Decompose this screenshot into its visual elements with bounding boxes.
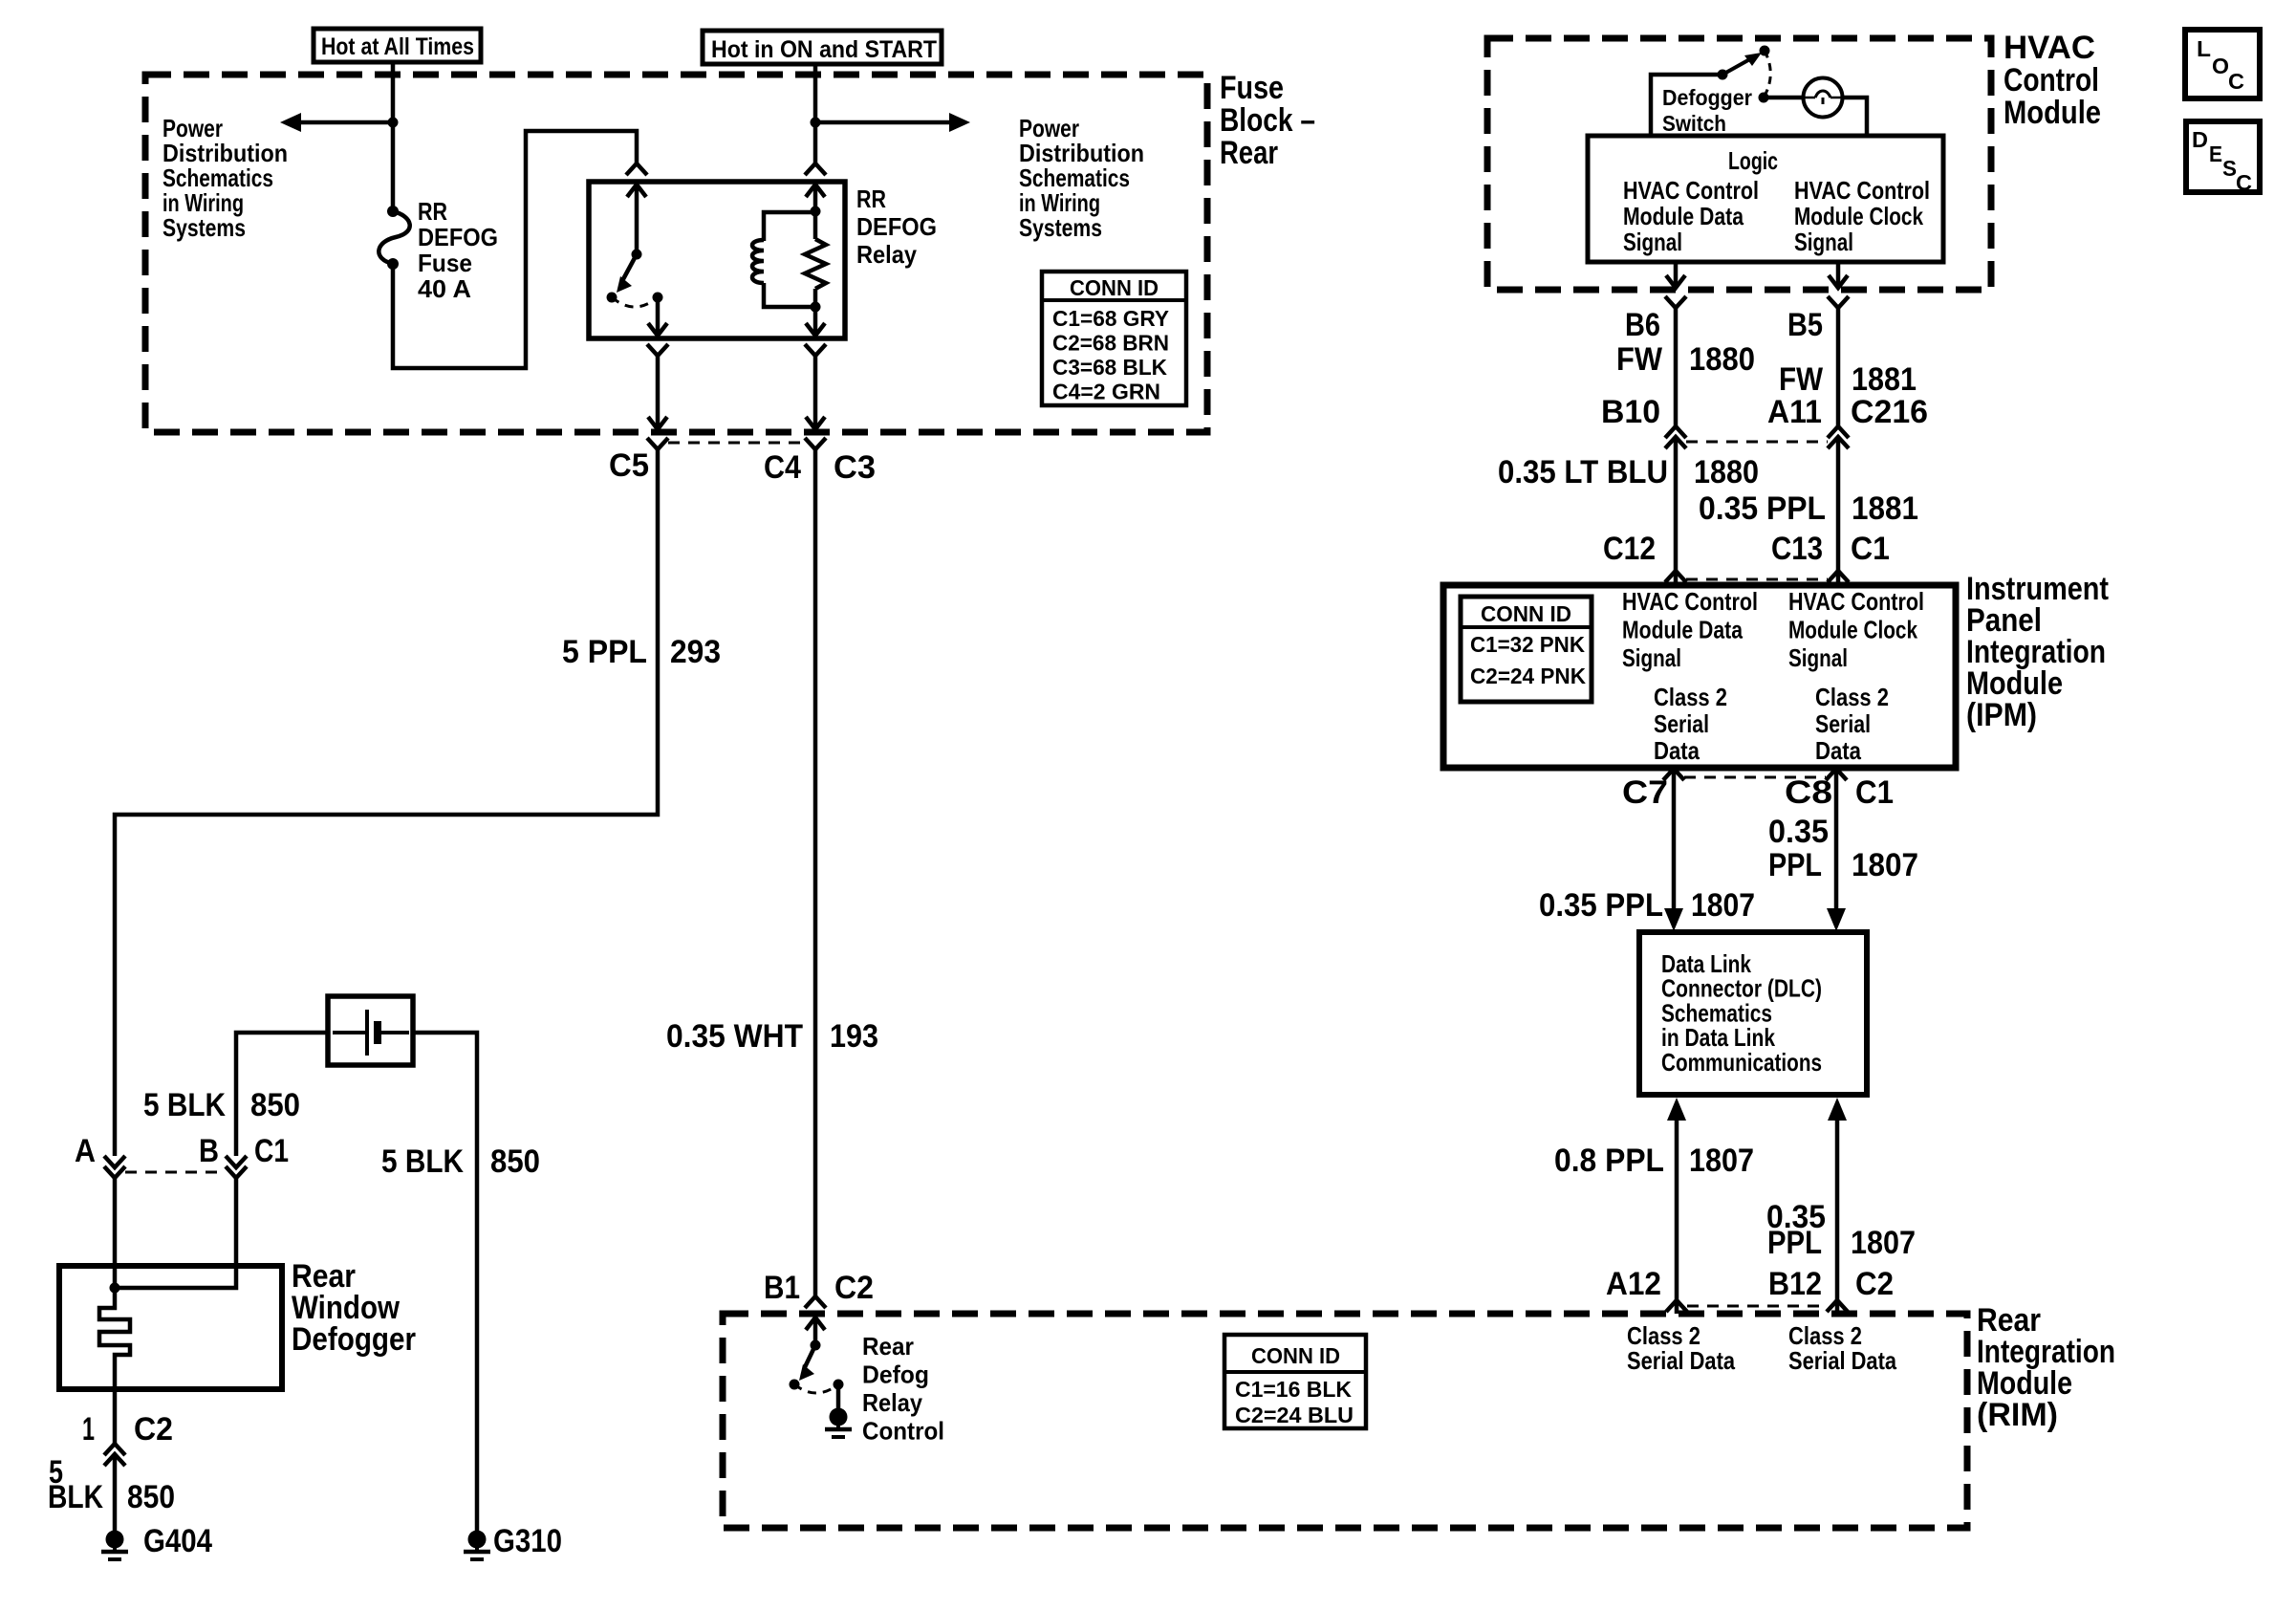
- svg-text:RR: RR: [418, 197, 447, 226]
- svg-text:C4: C4: [764, 449, 801, 486]
- module box: HVAC Control Module (dashed): [1487, 38, 1991, 290]
- wire: relay coil branch upper: [813, 185, 818, 239]
- svg-text:C2: C2: [1855, 1266, 1894, 1302]
- module box: Instrument Panel Integration Module: [1443, 585, 1956, 768]
- wire: HVAC data signal out (B6): [1674, 262, 1679, 288]
- wire: B wire into defogger box to junction: [115, 1178, 236, 1288]
- svg-text:HVAC Control: HVAC Control: [1788, 587, 1924, 616]
- wire: C8 to DLC: [1834, 769, 1839, 910]
- svg-text:C2=24 PNK: C2=24 PNK: [1470, 664, 1586, 688]
- svg-text:Rear: Rear: [1220, 135, 1278, 171]
- svg-text:HVAC Control: HVAC Control: [1623, 176, 1759, 205]
- dashed link: RIM switch arc: [794, 1384, 838, 1393]
- svg-text:A11: A11: [1767, 394, 1822, 430]
- wire: down to relay coil terminal: [813, 122, 818, 163]
- svg-text:1807: 1807: [1852, 847, 1918, 883]
- relay pin arrow: switch output leaving relay: [648, 323, 667, 336]
- svg-text:(IPM): (IPM): [1966, 697, 2037, 733]
- dashed link: A-B connector line: [125, 1171, 226, 1174]
- wire: lamp to logic box: [1843, 98, 1867, 136]
- svg-text:Rear: Rear: [862, 1332, 914, 1361]
- svg-text:A: A: [75, 1133, 96, 1169]
- relay K1: RR DEFOG Relay box: [589, 182, 845, 338]
- svg-text:Module Data: Module Data: [1623, 202, 1744, 230]
- node: RIM switch right contact: [834, 1380, 844, 1390]
- wire: relay output (coil side) down: [813, 307, 818, 336]
- svg-text:40 A: 40 A: [418, 274, 471, 303]
- svg-text:C2: C2: [134, 1411, 173, 1448]
- connector chevron: B6 below HVAC box: [1665, 296, 1686, 308]
- svg-text:1880: 1880: [1694, 454, 1759, 490]
- RIM relay control switch arm: [805, 1345, 815, 1367]
- wire: branch to Power Distribution (left): [299, 120, 393, 125]
- legend box: LOC: [2185, 30, 2260, 98]
- arrow: A12 into DLC: [1667, 1098, 1686, 1121]
- defogger switch arm: [1722, 56, 1755, 75]
- svg-text:C1=68 GRY: C1=68 GRY: [1052, 306, 1169, 331]
- svg-text:C1: C1: [1855, 774, 1894, 811]
- svg-text:C1=32 PNK: C1=32 PNK: [1470, 632, 1585, 657]
- node: defogger switch upper contact: [1760, 46, 1770, 56]
- node: coil bottom junction: [811, 302, 821, 313]
- wire: A11 to IPM C13: [1836, 437, 1841, 585]
- svg-text:A12: A12: [1606, 1266, 1661, 1302]
- svg-text:C: C: [2228, 69, 2244, 94]
- connector chevron: C5 below fuse block: [647, 438, 668, 449]
- svg-text:C2: C2: [834, 1270, 874, 1306]
- dashed link: C216 connector line: [1686, 441, 1828, 444]
- svg-text:Class 2: Class 2: [1654, 683, 1727, 711]
- svg-text:E: E: [2209, 142, 2222, 166]
- arrow: B12 into DLC: [1828, 1098, 1847, 1121]
- svg-text:RR: RR: [856, 185, 886, 213]
- connector chevron: below relay (coil side): [805, 344, 826, 356]
- wire: relay switch common: [635, 185, 639, 254]
- ground G404: [106, 1531, 124, 1549]
- wire: defogger switch feed: [1651, 75, 1722, 136]
- svg-text:C5: C5: [609, 447, 649, 484]
- connector chevron: C7 below IPM: [1663, 769, 1684, 780]
- svg-text:Module: Module: [2004, 95, 2101, 131]
- svg-text:0.35 WHT: 0.35 WHT: [666, 1018, 803, 1055]
- connector chevron: B1 above RIM: [805, 1296, 826, 1308]
- svg-text:0.8 PPL: 0.8 PPL: [1554, 1143, 1664, 1179]
- svg-text:Serial: Serial: [1815, 709, 1871, 738]
- svg-text:PPL: PPL: [1768, 847, 1822, 883]
- connector chevron: below relay (switch output): [647, 344, 668, 356]
- wire: B6 to inline connector B10: [1674, 308, 1679, 426]
- svg-text:CONN ID: CONN ID: [1481, 601, 1571, 626]
- svg-text:CONN ID: CONN ID: [1070, 275, 1159, 300]
- connector chevron: C12 above IPM: [1665, 571, 1686, 582]
- svg-text:Data: Data: [1654, 736, 1700, 765]
- module box: Rear Integration Module (dashed): [723, 1314, 1967, 1528]
- svg-text:C7: C7: [1622, 774, 1668, 811]
- dashed link: A12-B12 connector line: [1687, 1305, 1827, 1308]
- svg-text:Signal: Signal: [1788, 643, 1848, 672]
- svg-text:C: C: [2236, 170, 2252, 195]
- node: defogger switch pivot: [1718, 70, 1728, 80]
- wire: relay output to fuse block edge C5: [656, 356, 661, 429]
- connector chevron: A12 above RIM: [1666, 1300, 1687, 1312]
- svg-text:HVAC Control: HVAC Control: [1622, 587, 1758, 616]
- svg-text:Hot in ON and START: Hot in ON and START: [711, 36, 937, 63]
- svg-text:G310: G310: [493, 1523, 562, 1559]
- inductor: relay coil: [752, 240, 764, 283]
- connector chevron: relay coil input above relay box: [805, 163, 826, 175]
- node: junction at RR DEFOG fuse feed: [388, 118, 399, 128]
- svg-text:850: 850: [490, 1143, 540, 1180]
- svg-text:1807: 1807: [1691, 887, 1755, 924]
- svg-text:CONN ID: CONN ID: [1251, 1343, 1340, 1368]
- svg-text:D: D: [2192, 127, 2208, 152]
- wire: B5 to inline connector A11: [1836, 308, 1841, 426]
- wire: to G404: [113, 1454, 118, 1531]
- wire: RIM switch to internal ground: [836, 1384, 841, 1408]
- wire: HVAC clock signal out (B5): [1836, 262, 1841, 288]
- pin arrow: B5 at HVAC edge: [1829, 275, 1848, 288]
- svg-text:C4=2 GRN: C4=2 GRN: [1052, 380, 1160, 404]
- wire: battery to B wire: [236, 1033, 328, 1156]
- svg-text:C3=68 BLK: C3=68 BLK: [1052, 355, 1167, 380]
- fuse F1: RR DEFOG Fuse 40 A symbol: [387, 206, 399, 217]
- wire: battery to G310: [413, 1033, 477, 1531]
- svg-text:DEFOG: DEFOG: [856, 212, 937, 241]
- connector chevron: C13 above IPM: [1828, 571, 1849, 582]
- svg-text:C2=24 BLU: C2=24 BLU: [1235, 1403, 1354, 1427]
- svg-text:C216: C216: [1851, 394, 1928, 430]
- arrow: to Power Distribution Schematics right: [949, 113, 970, 132]
- svg-text:Data: Data: [1815, 736, 1861, 765]
- svg-text:1880: 1880: [1689, 341, 1755, 378]
- svg-text:Switch: Switch: [1662, 111, 1726, 136]
- box: Data Link Connector (DLC) reference: [1639, 932, 1867, 1095]
- svg-text:O: O: [2212, 54, 2229, 78]
- wire: defogger ground lead: [113, 1389, 118, 1444]
- svg-text:B6: B6: [1625, 307, 1660, 343]
- svg-text:(RIM): (RIM): [1977, 1397, 2058, 1433]
- wire: A into defogger box: [113, 1178, 118, 1288]
- resistor: relay coil suppression resistor: [805, 239, 826, 289]
- battery: voltage source box: [328, 996, 413, 1065]
- dashed link: C5-C4 connector line: [668, 442, 805, 445]
- svg-text:5 BLK: 5 BLK: [143, 1087, 226, 1123]
- label box: Hot in ON and START: [703, 31, 942, 64]
- svg-text:0.35 PPL: 0.35 PPL: [1539, 887, 1663, 924]
- svg-text:Class 2: Class 2: [1815, 683, 1889, 711]
- arrow: C7 into DLC: [1664, 908, 1683, 931]
- svg-text:5 BLK: 5 BLK: [381, 1143, 464, 1180]
- svg-text:Defogger: Defogger: [292, 1321, 416, 1358]
- wire: fuse to relay switch input (down, right, up, right): [393, 131, 637, 368]
- wire: relay coil feed from Hot in ON and START: [813, 64, 818, 122]
- indicator lamp: defogger switch: [1804, 78, 1843, 118]
- node: RIM switch left contact: [790, 1380, 800, 1390]
- wire: C7 to DLC: [1672, 769, 1677, 910]
- dashed link: relay switch throw arc: [612, 297, 658, 307]
- wire: relay switch output down: [656, 297, 661, 336]
- svg-text:HVAC: HVAC: [2004, 30, 2095, 66]
- svg-text:Serial Data: Serial Data: [1788, 1346, 1896, 1375]
- svg-text:Module Clock: Module Clock: [1794, 202, 1923, 230]
- svg-text:BLK: BLK: [48, 1479, 103, 1515]
- svg-text:Serial Data: Serial Data: [1627, 1346, 1735, 1375]
- svg-text:5 PPL: 5 PPL: [562, 634, 647, 670]
- svg-text:Control: Control: [2004, 62, 2099, 98]
- svg-text:C1=16 BLK: C1=16 BLK: [1235, 1377, 1352, 1402]
- dashed link: C7-C8 connector line: [1684, 776, 1826, 779]
- svg-text:Block –: Block –: [1220, 102, 1315, 139]
- connector chevron: B12 above RIM: [1827, 1300, 1848, 1312]
- wire: C5 to rear window defogger (down, left, down): [115, 449, 658, 1156]
- inline connector: B10 double chevron: [1665, 426, 1686, 438]
- svg-text:193: 193: [830, 1018, 878, 1055]
- connector chevron: relay switch input above relay box: [626, 163, 647, 175]
- dashed link: defogger switch arc: [1764, 51, 1770, 98]
- svg-text:C2=68 BRN: C2=68 BRN: [1052, 331, 1169, 356]
- svg-text:PPL: PPL: [1767, 1225, 1822, 1261]
- ground: RIM internal: [830, 1408, 848, 1426]
- connector chevron: B5 below HVAC box: [1828, 296, 1849, 308]
- svg-text:B5: B5: [1787, 307, 1823, 343]
- svg-text:C3: C3: [834, 449, 876, 486]
- module box: Fuse Block - Rear (dashed): [145, 75, 1207, 432]
- svg-text:Signal: Signal: [1794, 228, 1853, 256]
- wire: RIM A12 to DLC: [1675, 1121, 1679, 1314]
- svg-text:Fuse: Fuse: [418, 249, 472, 277]
- svg-text:C13: C13: [1771, 531, 1823, 567]
- svg-text:Module Clock: Module Clock: [1788, 616, 1917, 644]
- svg-text:Communications: Communications: [1661, 1048, 1822, 1077]
- svg-text:HVAC Control: HVAC Control: [1794, 176, 1930, 205]
- svg-text:B12: B12: [1768, 1266, 1822, 1302]
- svg-text:FW: FW: [1779, 361, 1824, 398]
- node: junction to Power Distribution (right): [811, 118, 821, 128]
- svg-text:1881: 1881: [1852, 490, 1918, 527]
- svg-text:B10: B10: [1601, 394, 1660, 430]
- inline connector: defogger ground double chevron: [104, 1444, 125, 1455]
- wire: Hot at All Times feed down to junction: [391, 62, 396, 122]
- svg-text:C1: C1: [254, 1133, 289, 1169]
- svg-text:Systems: Systems: [162, 213, 246, 242]
- svg-text:Signal: Signal: [1622, 643, 1681, 672]
- svg-text:1807: 1807: [1851, 1225, 1916, 1261]
- wire: down to fuse block edge C4: [813, 356, 818, 429]
- svg-text:S: S: [2222, 156, 2237, 181]
- svg-text:1: 1: [82, 1411, 95, 1448]
- wire: branch to Power Distribution (right): [815, 120, 951, 125]
- arrow: C8 into DLC: [1827, 908, 1846, 931]
- svg-text:DEFOG: DEFOG: [418, 223, 498, 251]
- node: coil top junction: [811, 207, 821, 217]
- node: defogger junction: [110, 1283, 120, 1294]
- wire: relay control stem: [813, 1317, 818, 1345]
- svg-text:Relay: Relay: [862, 1388, 922, 1417]
- svg-text:293: 293: [670, 634, 721, 670]
- wire: B10 to IPM C12: [1674, 437, 1679, 585]
- svg-text:0.35: 0.35: [1768, 814, 1829, 850]
- relay pin arrow: coil input into relay: [806, 185, 825, 197]
- pin arrow: B6 at HVAC edge: [1666, 275, 1685, 288]
- wire: coil top link: [764, 212, 815, 241]
- connector chevron: C8 below IPM: [1826, 769, 1847, 780]
- wire: resistor to coil bottom junction: [813, 289, 818, 307]
- defogger heating element: [99, 1288, 130, 1389]
- relay pin arrow: coil side leaving relay: [806, 323, 825, 336]
- connector chevron: C3 below fuse block: [805, 438, 826, 449]
- RIM pin arrow: relay control into RIM: [806, 1317, 825, 1330]
- node: defogger switch lamp contact: [1759, 93, 1769, 103]
- pin arrow: C5 at fuse block edge: [648, 417, 667, 429]
- svg-text:Defog: Defog: [862, 1361, 929, 1389]
- inline connector: B double chevron: [226, 1156, 247, 1167]
- svg-text:1881: 1881: [1852, 361, 1917, 398]
- wire: C3 to rear defog relay control: [813, 449, 818, 1296]
- ground G310: [468, 1531, 487, 1549]
- node: relay switch pivot: [632, 250, 642, 260]
- svg-text:Signal: Signal: [1623, 228, 1682, 256]
- dashed link: C12-C13 connector line: [1686, 578, 1828, 581]
- inline connector: A double chevron: [104, 1156, 125, 1167]
- arrow: to Power Distribution Schematics left: [280, 113, 301, 132]
- svg-text:Serial: Serial: [1654, 709, 1709, 738]
- label box: Hot at All Times: [314, 29, 481, 62]
- svg-text:Hot at All Times: Hot at All Times: [321, 33, 474, 60]
- node: relay switch output contact: [653, 293, 663, 303]
- svg-text:850: 850: [250, 1087, 300, 1123]
- svg-text:Systems: Systems: [1019, 213, 1102, 242]
- svg-text:B: B: [199, 1133, 219, 1169]
- svg-text:L: L: [2197, 36, 2211, 61]
- svg-text:G404: G404: [143, 1523, 212, 1559]
- wire: switch to indicator lamp: [1764, 96, 1803, 100]
- wire: RIM B12 to DLC: [1835, 1121, 1840, 1314]
- wire: coil bottom link: [764, 283, 815, 307]
- conn id table: IPM: [1461, 597, 1592, 702]
- svg-text:1807: 1807: [1689, 1143, 1754, 1179]
- svg-text:Logic: Logic: [1728, 146, 1778, 175]
- svg-text:Relay: Relay: [856, 240, 917, 269]
- svg-text:C1: C1: [1851, 531, 1890, 567]
- relay switch arm: [623, 254, 637, 279]
- conn id table: fuse block: [1042, 272, 1186, 405]
- node: RIM switch pivot: [811, 1340, 821, 1351]
- conn id table: RIM: [1224, 1335, 1366, 1428]
- svg-text:850: 850: [127, 1479, 175, 1515]
- wire: junction down to fuse: [391, 122, 396, 211]
- svg-text:B1: B1: [764, 1270, 800, 1306]
- inline connector: A11 double chevron: [1828, 426, 1849, 438]
- svg-text:FW: FW: [1616, 341, 1663, 378]
- logic box: HVAC logic: [1588, 136, 1943, 262]
- svg-text:C12: C12: [1603, 531, 1656, 567]
- svg-text:C8: C8: [1785, 774, 1832, 811]
- svg-text:Module Data: Module Data: [1622, 616, 1743, 644]
- rear window defogger box: [59, 1266, 282, 1389]
- node: relay switch NO contact: [607, 293, 617, 303]
- pin arrow: C4 at fuse block edge: [806, 417, 825, 429]
- svg-text:0.35 LT BLU: 0.35 LT BLU: [1498, 454, 1668, 490]
- svg-text:Fuse: Fuse: [1220, 70, 1284, 106]
- svg-text:0.35 PPL: 0.35 PPL: [1699, 490, 1826, 527]
- svg-text:Control: Control: [862, 1417, 944, 1446]
- relay pin arrow: switch input into relay: [627, 185, 646, 197]
- svg-text:Defogger: Defogger: [1662, 85, 1752, 110]
- legend box: DESC: [2186, 121, 2260, 192]
